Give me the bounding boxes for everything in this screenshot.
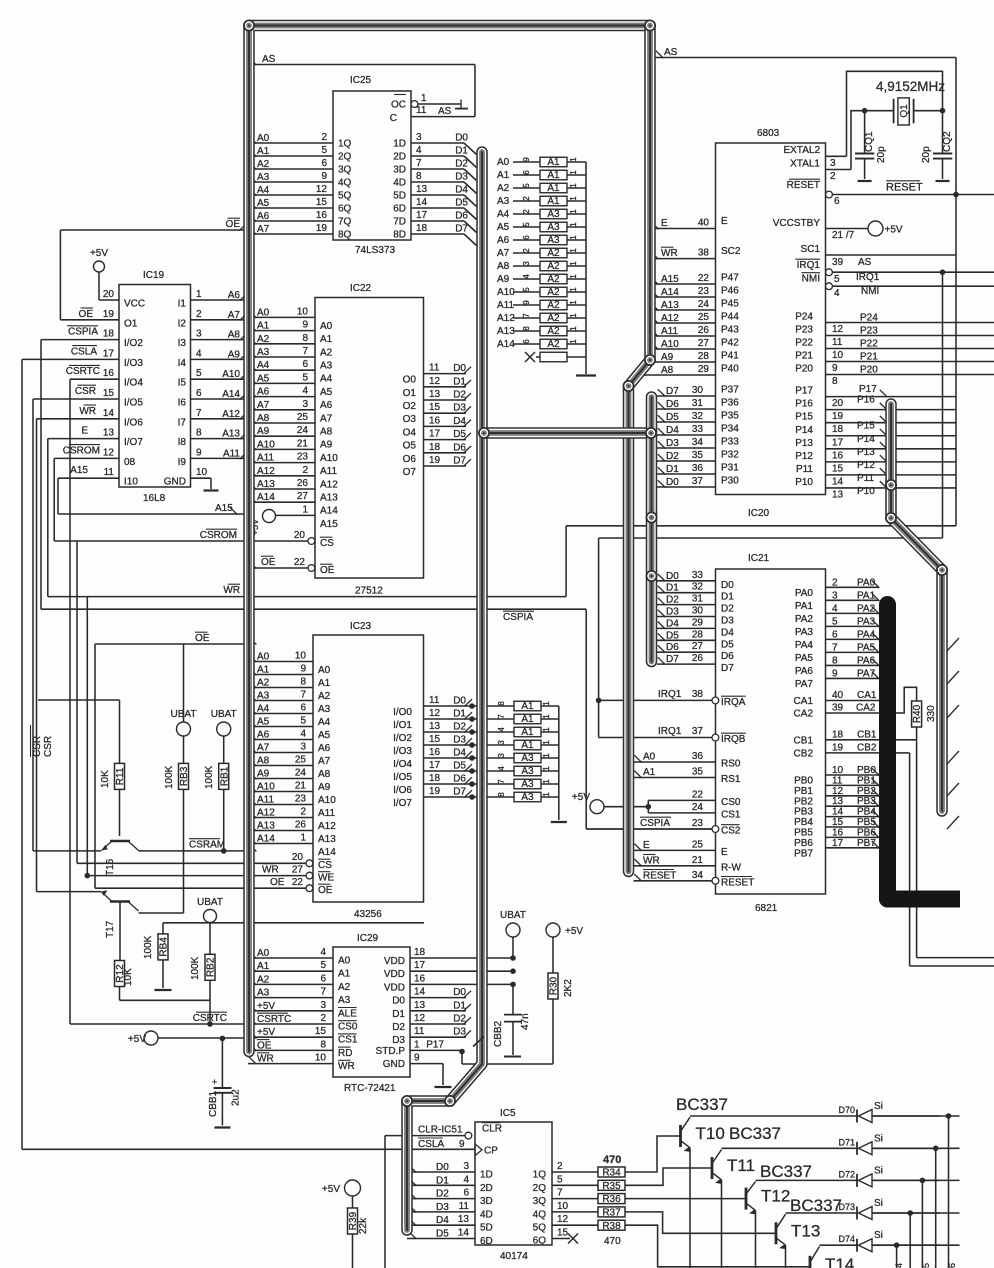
svg-text:9: 9 xyxy=(832,363,838,374)
svg-text:A4: A4 xyxy=(257,185,270,196)
svg-text:P44: P44 xyxy=(721,312,739,323)
IC20 P1x row pin 13 P10 xyxy=(795,477,956,501)
svg-text:6803: 6803 xyxy=(757,128,780,139)
svg-text:A2: A2 xyxy=(257,974,270,985)
svg-text:A3: A3 xyxy=(521,766,534,777)
svg-text:D74: D74 xyxy=(838,1234,855,1244)
svg-text:22: 22 xyxy=(692,789,704,800)
wire D0 from IC23 I/O0 pin 11 to resistor network A1 xyxy=(393,695,559,718)
svg-text:10: 10 xyxy=(315,1053,327,1064)
svg-text:A6: A6 xyxy=(257,730,270,741)
IC20 P1x row pin 18 P15 xyxy=(795,412,956,436)
svg-text:4: 4 xyxy=(497,727,506,732)
wire D5 from IC25 pin 14 xyxy=(393,197,476,220)
svg-text:1: 1 xyxy=(542,753,551,758)
svg-text:A1: A1 xyxy=(338,969,351,980)
svg-text:A1: A1 xyxy=(547,196,560,207)
transistor T13 BC337 xyxy=(776,1196,857,1268)
svg-text:O1: O1 xyxy=(124,318,138,329)
svg-text:PA1: PA1 xyxy=(857,590,876,601)
wire A8 to IC22 pin 25 xyxy=(248,412,333,438)
svg-text:1: 1 xyxy=(542,779,551,784)
wire D1 from IC23 I/O1 pin 12 to resistor network A1 xyxy=(393,708,559,731)
svg-text:4Q: 4Q xyxy=(533,1209,547,1220)
svg-text:RESET: RESET xyxy=(721,877,754,888)
svg-text:4: 4 xyxy=(832,603,838,614)
svg-text:22: 22 xyxy=(294,557,306,568)
capacitor CBB1 2u2 xyxy=(208,1036,242,1128)
svg-text:8: 8 xyxy=(302,333,308,344)
svg-text:GND: GND xyxy=(164,477,186,488)
IC20 SC1 pin 39 AS to right edge xyxy=(801,244,956,268)
svg-text:2: 2 xyxy=(321,132,327,143)
IC5 6Q pin 15 unconnected xyxy=(533,1228,578,1247)
transistor T12 BC337 xyxy=(746,1162,857,1268)
svg-text:D0: D0 xyxy=(721,580,734,591)
wire +5V to IC29 pin 3 ALE xyxy=(248,1000,357,1020)
svg-text:100K: 100K xyxy=(143,935,154,959)
svg-text:4: 4 xyxy=(302,386,308,397)
svg-text:8: 8 xyxy=(196,428,202,439)
svg-text:WR: WR xyxy=(79,406,96,417)
wire RESET to IC21 pin 34 xyxy=(634,870,755,889)
capacitor CBB2 47n xyxy=(493,984,531,1056)
svg-text:A5: A5 xyxy=(318,730,331,741)
svg-text:40174: 40174 xyxy=(500,1251,528,1262)
IC19 left pin 19 O1 xyxy=(103,309,138,330)
svg-text:A3: A3 xyxy=(338,995,351,1006)
wire A14 to IC23 pin 1 xyxy=(248,833,336,859)
wire A2 to IC22 pin 8 xyxy=(248,333,333,359)
svg-text:17: 17 xyxy=(429,429,441,440)
wire D2 from IC29 pin 12 xyxy=(392,1013,471,1033)
wire R35 to T11 base xyxy=(625,1168,713,1185)
resistor R11 10K xyxy=(100,763,126,789)
IC19 right pin 8 I8 xyxy=(178,428,248,449)
wire D1 to IC21 pin 32 xyxy=(657,582,734,603)
svg-text:D7: D7 xyxy=(453,456,466,467)
svg-text:T14: T14 xyxy=(825,1255,854,1268)
svg-text:A1: A1 xyxy=(521,714,534,725)
svg-text:A5: A5 xyxy=(257,373,270,384)
wire A0 to IC22 pin 10 xyxy=(248,306,333,332)
svg-text:1Q: 1Q xyxy=(338,139,352,150)
svg-text:3: 3 xyxy=(830,158,836,169)
svg-text:I/O6: I/O6 xyxy=(124,417,143,428)
svg-text:CQ2: CQ2 xyxy=(942,131,953,152)
svg-text:34: 34 xyxy=(692,437,704,448)
node: data tube corner before IC5 xyxy=(401,1095,413,1107)
resistor network element A2 pin 4 for A9 xyxy=(497,274,586,285)
svg-text:UBAT: UBAT xyxy=(211,709,237,720)
svg-text:5D: 5D xyxy=(480,1223,493,1234)
svg-text:11: 11 xyxy=(416,105,427,116)
svg-text:D5: D5 xyxy=(666,412,679,423)
IC19 right pin 9 I9 xyxy=(178,447,248,468)
svg-text:20p: 20p xyxy=(876,146,887,163)
svg-text:D7: D7 xyxy=(721,663,734,674)
svg-text:A0: A0 xyxy=(257,948,270,959)
svg-text:7: 7 xyxy=(302,346,308,357)
svg-text:27512: 27512 xyxy=(355,586,383,597)
svg-text:6: 6 xyxy=(832,629,838,640)
svg-text:1: 1 xyxy=(569,209,578,214)
svg-text:WR: WR xyxy=(643,855,660,866)
svg-text:D2: D2 xyxy=(453,1014,466,1025)
svg-text:P37: P37 xyxy=(721,385,739,396)
wire CSRAM from T16 collector to bus xyxy=(139,839,257,854)
svg-text:24: 24 xyxy=(295,768,307,779)
IC21 CB2 pin 19 to D73 line xyxy=(794,742,910,759)
svg-text:D3: D3 xyxy=(453,735,466,746)
svg-text:I9: I9 xyxy=(178,457,187,468)
wire A1 to IC23 pin 9 xyxy=(248,664,331,690)
svg-text:A3: A3 xyxy=(257,172,270,183)
svg-text:16: 16 xyxy=(103,368,115,379)
svg-text:1: 1 xyxy=(542,714,551,719)
IC21 PB5 pin 15 to port bus xyxy=(794,817,879,839)
svg-text:VDD: VDD xyxy=(384,982,405,993)
svg-text:15: 15 xyxy=(429,734,441,745)
svg-text:PB3: PB3 xyxy=(794,807,813,818)
svg-text:Si: Si xyxy=(874,1133,883,1144)
wire A9 to IC22 pin 24 xyxy=(248,425,333,451)
svg-text:1: 1 xyxy=(569,183,578,188)
wire D3 from IC25 pin 8 xyxy=(393,171,476,194)
svg-text:VCC: VCC xyxy=(124,299,145,310)
svg-text:32: 32 xyxy=(692,582,704,593)
svg-text:4: 4 xyxy=(497,766,506,771)
svg-text:P35: P35 xyxy=(721,411,739,422)
wire A1 to IC21 RS1 pin 35 xyxy=(634,767,741,786)
svg-text:A0: A0 xyxy=(497,157,510,168)
wire R11 to CSR rail xyxy=(38,700,120,763)
svg-text:E: E xyxy=(81,426,88,437)
svg-text:P46: P46 xyxy=(721,286,739,297)
IC19 right pin 3 I3 xyxy=(178,329,248,350)
IC21 CA2 pin 39 through R40 330 to CB1 xyxy=(794,687,937,740)
node: P bus junction at P10 xyxy=(885,479,897,491)
svg-text:A1: A1 xyxy=(318,678,331,689)
wire A10 to IC20 pin 27 P42 xyxy=(650,338,739,351)
diode D74 Si xyxy=(838,1230,940,1252)
svg-text:1Q: 1Q xyxy=(533,1170,547,1181)
svg-text:A9: A9 xyxy=(320,440,333,451)
svg-text:38: 38 xyxy=(692,689,704,700)
svg-text:3: 3 xyxy=(522,261,531,266)
svg-text:A11: A11 xyxy=(257,795,274,806)
wire D1 from IC29 pin 13 xyxy=(392,1000,471,1020)
IC20 P22 pin 10 to right edge xyxy=(795,338,994,362)
svg-text:D2: D2 xyxy=(455,159,468,170)
svg-text:1: 1 xyxy=(569,261,578,266)
svg-text:RD: RD xyxy=(338,1048,352,1059)
svg-text:A9: A9 xyxy=(318,782,331,793)
svg-text:CS1: CS1 xyxy=(721,809,741,820)
svg-text:IC21: IC21 xyxy=(748,553,770,564)
svg-text:CQ1: CQ1 xyxy=(864,131,875,152)
IC21 CA1 pin 40 xyxy=(794,690,879,707)
svg-text:7D: 7D xyxy=(393,217,406,228)
svg-text:A11: A11 xyxy=(257,453,274,464)
wire R11 to T16 base xyxy=(119,789,121,836)
svg-text:15: 15 xyxy=(429,402,441,413)
IC21 PB2 pin 12 to port bus xyxy=(794,786,879,808)
svg-text:T13: T13 xyxy=(791,1221,820,1240)
wire D0 to IC20 pin 37 P30 xyxy=(657,476,739,489)
svg-text:PA7: PA7 xyxy=(795,679,814,690)
wire D1 to IC20 pin 36 P31 xyxy=(657,463,739,476)
IC20 P21 pin 9 to right edge xyxy=(795,351,994,375)
svg-text:D2: D2 xyxy=(666,595,679,606)
svg-text:24: 24 xyxy=(692,802,704,813)
wire A6 to IC22 pin 4 xyxy=(248,386,333,412)
svg-text:1: 1 xyxy=(542,766,551,771)
svg-text:5: 5 xyxy=(834,274,840,285)
pin 11 C of IC25 from AS xyxy=(390,105,475,124)
svg-text:+5V: +5V xyxy=(322,1184,340,1195)
svg-text:A14: A14 xyxy=(320,506,338,517)
svg-text:7: 7 xyxy=(832,642,838,653)
wire E to IC20 pin 40 xyxy=(650,216,728,229)
svg-text:A7: A7 xyxy=(228,310,241,321)
svg-text:P13: P13 xyxy=(857,447,875,458)
svg-text:D1: D1 xyxy=(721,592,734,603)
diode D73 Si xyxy=(838,1198,940,1220)
svg-text:RTC-72421: RTC-72421 xyxy=(344,1083,396,1094)
net label WR on long line xyxy=(223,584,240,596)
svg-text:STD.P: STD.P xyxy=(376,1046,406,1057)
wire bus: data bus tube right of IC25 down to IC5 xyxy=(407,152,482,1230)
svg-text:7: 7 xyxy=(320,987,326,998)
svg-text:P11: P11 xyxy=(796,464,813,475)
wire CSR from IC19 pin 15 to T16 xyxy=(33,385,119,851)
svg-text:P13: P13 xyxy=(795,438,813,449)
svg-text:R35: R35 xyxy=(602,1181,621,1192)
wire A0 to IC21 RS0 pin 36 xyxy=(634,751,741,770)
node: tube junction right xyxy=(645,427,657,439)
svg-text:A12: A12 xyxy=(497,313,515,324)
svg-text:37: 37 xyxy=(692,726,704,737)
wire D3 from IC23 I/O3 pin 15 to resistor network A1 xyxy=(393,734,559,757)
wire OE from IC19 pin 19 up to bus xyxy=(60,218,248,320)
svg-text:A2: A2 xyxy=(547,339,560,350)
svg-text:P12: P12 xyxy=(857,460,875,471)
svg-text:36: 36 xyxy=(692,463,704,474)
svg-text:CB1: CB1 xyxy=(794,735,814,746)
svg-text:11: 11 xyxy=(414,1026,425,1037)
svg-text:P21: P21 xyxy=(860,352,878,363)
svg-text:A1: A1 xyxy=(547,170,560,181)
svg-text:1: 1 xyxy=(569,300,578,305)
svg-text:A0: A0 xyxy=(318,665,331,676)
svg-text:37: 37 xyxy=(692,476,704,487)
wire A4 to IC23 pin 6 xyxy=(248,703,331,729)
svg-text:330: 330 xyxy=(926,705,937,722)
resistor network element A2 pin 5 for A10 xyxy=(497,287,586,298)
svg-text:14: 14 xyxy=(103,408,115,419)
svg-text:D5: D5 xyxy=(721,639,734,650)
wire D3 from IC22 O3 pin 15 xyxy=(403,402,471,425)
svg-text:D0: D0 xyxy=(453,987,466,998)
resistor network element A2 pin 8 for A13 xyxy=(497,326,586,337)
svg-text:6: 6 xyxy=(522,170,531,175)
svg-text:18: 18 xyxy=(429,773,441,784)
wire D6 to IC20 pin 31 P36 xyxy=(657,398,739,411)
IC19 left pin 12 08 xyxy=(103,447,136,468)
svg-text:1: 1 xyxy=(542,740,551,745)
svg-text:470: 470 xyxy=(604,1236,621,1247)
svg-text:35: 35 xyxy=(692,450,704,461)
UBAT supply for IC29 xyxy=(500,910,526,958)
svg-text:A1: A1 xyxy=(521,727,534,738)
svg-text:33: 33 xyxy=(692,570,704,581)
svg-text:A8: A8 xyxy=(318,769,331,780)
svg-text:+5V: +5V xyxy=(257,1027,275,1038)
svg-text:D4: D4 xyxy=(666,618,679,629)
svg-text:A11: A11 xyxy=(497,300,514,311)
wire CSRTC from IC19 pin 16 xyxy=(66,365,248,1024)
svg-text:PB1: PB1 xyxy=(794,786,813,797)
svg-text:28: 28 xyxy=(692,629,704,640)
svg-text:D5: D5 xyxy=(436,1229,449,1240)
svg-text:PB0: PB0 xyxy=(794,776,813,787)
svg-text:D3: D3 xyxy=(666,607,679,618)
svg-text:D3: D3 xyxy=(436,1202,449,1213)
svg-text:8: 8 xyxy=(497,792,506,797)
svg-text:E: E xyxy=(661,218,668,229)
wire bus: port P1x tube from IC20 down to hatched connector bus xyxy=(891,404,942,811)
svg-text:16: 16 xyxy=(316,210,328,221)
svg-text:P10: P10 xyxy=(857,486,875,497)
svg-text:O2: O2 xyxy=(403,401,417,412)
svg-text:CS: CS xyxy=(318,860,332,871)
wire A12 to IC20 pin 25 P44 xyxy=(650,312,739,325)
svg-text:5D: 5D xyxy=(393,191,406,202)
svg-text:8: 8 xyxy=(497,701,506,706)
svg-text:19: 19 xyxy=(316,223,328,234)
svg-text:O0: O0 xyxy=(403,375,417,386)
svg-text:+5V: +5V xyxy=(128,1034,146,1045)
svg-text:3: 3 xyxy=(302,399,308,410)
svg-text:27: 27 xyxy=(692,641,704,652)
node: bus corner top-left xyxy=(243,20,255,32)
svg-text:R34: R34 xyxy=(602,1168,621,1179)
svg-text:A2: A2 xyxy=(257,678,270,689)
svg-text:CS1: CS1 xyxy=(338,1035,358,1046)
svg-text:I6: I6 xyxy=(178,398,187,409)
svg-text:32: 32 xyxy=(692,411,704,422)
svg-text:A6: A6 xyxy=(257,211,270,222)
svg-text:+: + xyxy=(212,1077,217,1087)
wire A1 to IC25 pin 5 xyxy=(248,145,352,163)
svg-text:P21: P21 xyxy=(795,351,813,362)
IC21 PA1 pin 3 to port bus xyxy=(795,590,880,612)
IC20 P1x row pin 15 P12 xyxy=(795,451,956,475)
svg-text:IRQA: IRQA xyxy=(721,697,746,708)
wire D7 to IC21 pin 26 xyxy=(657,653,734,674)
svg-text:A4: A4 xyxy=(257,360,270,371)
wire bus: right vertical bus tube from top corner, jog at A8, down to cap near IC21 RESET xyxy=(629,26,651,872)
svg-text:2Q: 2Q xyxy=(533,1183,547,1194)
svg-text:A13: A13 xyxy=(320,493,338,504)
svg-text:25: 25 xyxy=(692,839,704,850)
wire from IC5 2Q pin 5 through R35 xyxy=(533,1174,625,1194)
svg-text:3: 3 xyxy=(320,1000,326,1011)
svg-text:30: 30 xyxy=(692,606,704,617)
wire D7 from IC22 O7 pin 19 xyxy=(403,455,471,478)
IC20 IRQ1 pin 5 to right edge xyxy=(795,259,994,285)
IC21 PB6 pin 16 to port bus xyxy=(794,827,879,849)
wire A3 to IC25 pin 9 xyxy=(248,171,352,189)
svg-text:14: 14 xyxy=(414,987,426,998)
svg-text:3Q: 3Q xyxy=(338,165,352,176)
wire WR to IC21 R-W pin 21 xyxy=(634,855,742,874)
svg-text:A9: A9 xyxy=(257,769,270,780)
svg-text:PB5: PB5 xyxy=(794,828,813,839)
svg-text:12: 12 xyxy=(832,786,844,797)
svg-text:T17: T17 xyxy=(105,920,116,938)
svg-text:A10: A10 xyxy=(257,782,275,793)
svg-text:8: 8 xyxy=(832,376,838,387)
svg-text:IC29: IC29 xyxy=(357,933,379,944)
svg-text:7: 7 xyxy=(557,1188,563,1199)
wire from IC5 1Q pin 2 through R34 xyxy=(533,1161,625,1181)
capacitor CQ2 20p xyxy=(921,111,953,181)
wire A15 from IC19 pin 11 xyxy=(58,465,248,514)
svg-text:9: 9 xyxy=(832,668,838,679)
wire T17 base to R12 xyxy=(119,902,121,961)
svg-text:A3: A3 xyxy=(497,196,510,207)
svg-text:31: 31 xyxy=(692,398,704,409)
svg-text:P12: P12 xyxy=(795,451,813,462)
svg-text:1: 1 xyxy=(414,1039,420,1050)
svg-text:CA1: CA1 xyxy=(857,690,877,701)
resistor network element A2 pin 6 for A14 xyxy=(497,339,586,350)
+5V circle with R39 22k xyxy=(322,1180,369,1268)
svg-text:5: 5 xyxy=(557,1174,563,1185)
svg-text:13: 13 xyxy=(414,1000,426,1011)
svg-text:1: 1 xyxy=(569,196,578,201)
wire D5 to IC20 pin 32 P35 xyxy=(657,411,739,424)
wire A3 to IC23 pin 7 xyxy=(248,690,331,716)
svg-text:27: 27 xyxy=(297,491,309,502)
svg-text:26: 26 xyxy=(295,820,307,831)
wire AS right segment from bus to right margin xyxy=(655,47,956,195)
IC21 PB4 pin 14 to port bus xyxy=(794,807,879,829)
svg-text:BC337: BC337 xyxy=(760,1162,812,1181)
wire D1 from IC22 O1 pin 12 xyxy=(403,376,471,399)
wire A11 to IC20 pin 26 P43 xyxy=(650,325,739,338)
svg-text:24: 24 xyxy=(297,425,309,436)
IC20 RESET pin 6 to right edge xyxy=(787,179,994,207)
svg-text:D0: D0 xyxy=(455,133,468,144)
svg-text:P33: P33 xyxy=(721,437,739,448)
svg-text:47n: 47n xyxy=(520,1013,531,1030)
wire D2 to IC20 pin 35 P32 xyxy=(657,450,739,463)
svg-text:D0: D0 xyxy=(392,996,405,1007)
svg-text:A2: A2 xyxy=(338,982,351,993)
svg-text:10: 10 xyxy=(297,306,309,317)
diode D70 Si xyxy=(838,1101,940,1123)
svg-text:40: 40 xyxy=(832,690,844,701)
svg-text:+5V: +5V xyxy=(257,1001,275,1012)
svg-text:1: 1 xyxy=(569,248,578,253)
svg-text:P23: P23 xyxy=(795,325,813,336)
node: P bus corner to vertical xyxy=(936,564,948,576)
wire A10 to IC23 pin 21 xyxy=(248,781,336,807)
svg-text:5: 5 xyxy=(321,145,327,156)
